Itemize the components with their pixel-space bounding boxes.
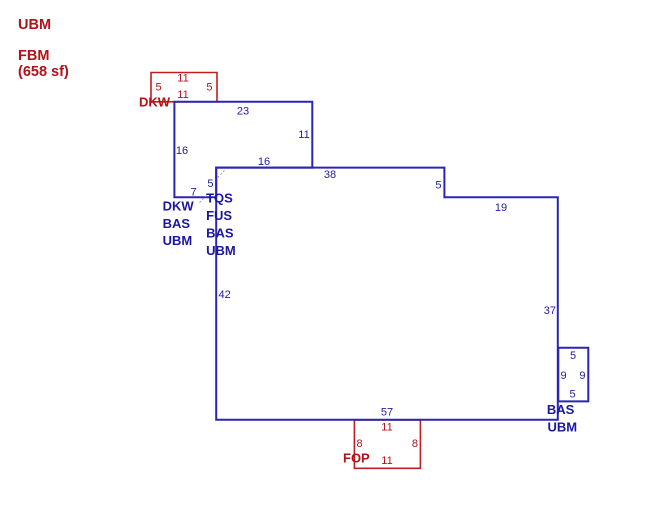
start marker tick at node (216,197) [200,195,208,203]
svg-text:BAS: BAS [163,216,191,231]
svg-text:57: 57 [381,407,393,419]
svg-text:UBM: UBM [206,243,236,258]
svg-text:38: 38 [324,169,336,181]
svg-text:5: 5 [207,178,213,190]
svg-text:TQS: TQS [206,191,233,206]
svg-text:8: 8 [412,438,418,450]
svg-text:11: 11 [298,129,309,141]
svg-text:8: 8 [357,438,363,450]
svg-text:UBM: UBM [18,17,51,33]
svg-text:BAS: BAS [206,226,234,241]
svg-text:16: 16 [176,145,188,157]
DKW red rectangle outline [151,73,217,102]
svg-text:FBM: FBM [18,48,49,64]
svg-text:5: 5 [569,388,575,400]
svg-text:7: 7 [190,186,196,198]
svg-text:11: 11 [177,89,188,101]
svg-text:DKW: DKW [163,198,195,213]
svg-text:5: 5 [206,82,212,94]
svg-text:16: 16 [258,156,270,168]
svg-text:UBM: UBM [163,233,193,248]
svg-text:(658 sf): (658 sf) [18,64,69,80]
svg-text:11: 11 [381,455,392,467]
svg-text:FOP: FOP [343,451,370,466]
BAS/UBM small blue rectangle outline [558,348,588,402]
svg-text:37: 37 [544,305,556,317]
svg-text:UBM: UBM [548,419,578,434]
svg-text:9: 9 [579,370,585,382]
svg-text:19: 19 [495,202,507,214]
svg-text:BAS: BAS [547,402,575,417]
start marker tick at node (216,168) [218,170,226,178]
svg-text:5: 5 [156,82,162,94]
svg-text:DKW: DKW [139,95,171,110]
svg-text:9: 9 [561,370,567,382]
FOP red rectangle outline [354,420,420,468]
svg-text:23: 23 [237,105,249,117]
svg-text:11: 11 [177,73,188,85]
svg-text:FUS: FUS [206,208,232,223]
main polygon TQS/FUS/BAS/UBM outline [216,168,558,420]
svg-text:5: 5 [570,350,576,362]
svg-text:42: 42 [219,289,231,301]
svg-text:5: 5 [435,180,441,192]
svg-text:11: 11 [381,422,392,434]
DKW/BAS/UBM blue polygon outline (upper L-shape) [174,102,312,198]
